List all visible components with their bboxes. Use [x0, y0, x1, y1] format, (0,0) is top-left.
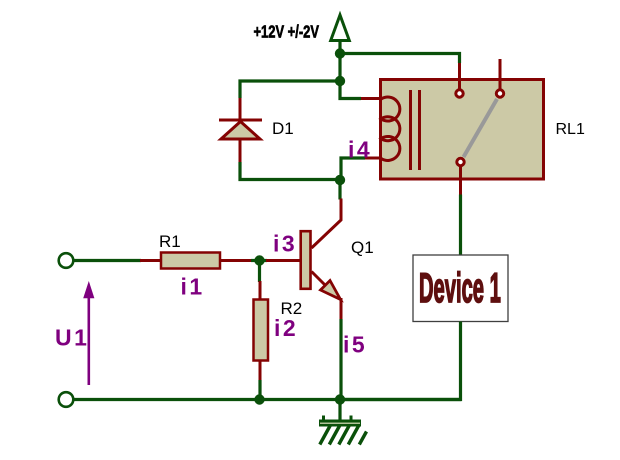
collector lead [312, 199, 342, 249]
relay armature [464, 99, 498, 157]
collector wire green [338, 180, 341, 200]
wire coil bottom [341, 158, 365, 180]
relay core line 1 [409, 90, 412, 170]
svg-text:Device 1: Device 1 [419, 264, 501, 311]
relay RL1 [361, 59, 544, 195]
wire R1 to base node [251, 259, 267, 262]
coil pin top [361, 97, 381, 100]
node power junction 2 [335, 76, 345, 86]
relay contact pin 1 [458, 63, 461, 89]
coil pin bottom [365, 157, 381, 160]
emitter arrow [321, 281, 341, 300]
node R2 rail junction [254, 394, 264, 404]
wire R2 to rail [258, 380, 261, 400]
svg-text:Q1: Q1 [351, 238, 374, 257]
wire relay to Device 1 [459, 195, 462, 256]
wire bottom rail [66, 398, 461, 401]
wire emitter to rail [339, 319, 342, 400]
node collector junction [335, 175, 345, 185]
svg-text:U1: U1 [55, 325, 89, 351]
svg-text:i4: i4 [348, 137, 372, 163]
svg-text:RL1: RL1 [556, 121, 585, 138]
wire to D1 top [240, 81, 340, 98]
resistor R1 [140, 253, 251, 269]
svg-text:+12V +/-2V: +12V +/-2V [253, 23, 319, 43]
arrow U1 [83, 281, 94, 385]
wire Device 1 to ground rail [340, 322, 461, 400]
relay contact circle 2 [496, 90, 503, 97]
node ground junction [335, 394, 345, 404]
relay contact circle 1 [456, 90, 463, 97]
label +12V +/-2V [253, 23, 319, 43]
wire top rail to relay contact [340, 54, 460, 64]
wire input to R1 [74, 259, 141, 262]
device box Device 1 [413, 255, 508, 322]
svg-text:D1: D1 [272, 119, 294, 138]
svg-text:i2: i2 [274, 315, 298, 341]
node base junction [254, 255, 264, 265]
ground [319, 400, 367, 445]
wire base [266, 259, 300, 262]
relay contact circle common [457, 158, 464, 165]
svg-text:i3: i3 [273, 231, 297, 257]
relay contact pin 2 [499, 59, 502, 89]
wire D1 bottom [240, 162, 340, 180]
terminal input bottom [59, 392, 74, 407]
base bar [301, 231, 311, 289]
wire power stem [338, 54, 341, 82]
relay core line 2 [418, 90, 421, 170]
emitter vertical [340, 298, 343, 320]
emitter lead [312, 272, 329, 289]
resistor R2 [254, 281, 269, 381]
node power junction 1 [335, 48, 345, 58]
diode D1 [219, 98, 262, 162]
wire to coil top [340, 81, 361, 99]
svg-text:R1: R1 [159, 232, 181, 251]
relay common pin [459, 167, 462, 195]
transistor Q1 [301, 180, 341, 320]
svg-text:i5: i5 [343, 332, 367, 358]
relay coil [381, 97, 400, 160]
svg-text:i1: i1 [181, 274, 205, 300]
terminal input top [59, 253, 74, 268]
power symbol +12V [331, 15, 350, 54]
wire node to R2 [258, 261, 261, 283]
